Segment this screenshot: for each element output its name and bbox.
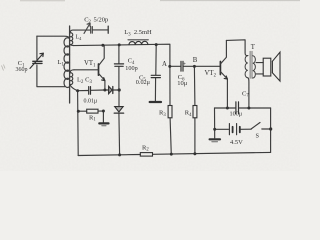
- svg-text:B: B: [193, 57, 198, 64]
- svg-text:0.02μ: 0.02μ: [136, 79, 151, 86]
- svg-text:S: S: [256, 132, 260, 139]
- svg-text:L4: L4: [76, 35, 83, 41]
- svg-text:100μ: 100μ: [230, 110, 243, 117]
- svg-text:0.01μ: 0.01μ: [84, 98, 98, 104]
- svg-text:4.5V: 4.5V: [230, 139, 243, 146]
- svg-text:100p: 100p: [125, 65, 137, 72]
- svg-text:A: A: [162, 61, 167, 68]
- svg-text:10μ: 10μ: [177, 80, 188, 87]
- svg-text:360p: 360p: [16, 67, 28, 73]
